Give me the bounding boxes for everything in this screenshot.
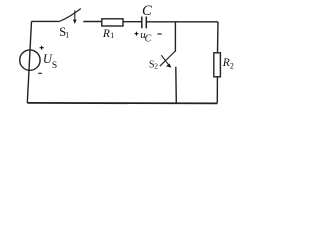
svg-text:R: R — [102, 28, 110, 40]
svg-text:1: 1 — [110, 31, 114, 40]
svg-text:2: 2 — [230, 62, 234, 71]
svg-text:R: R — [222, 57, 230, 69]
svg-text:C: C — [145, 33, 152, 44]
svg-text:2: 2 — [154, 62, 158, 71]
svg-text:1: 1 — [65, 30, 69, 39]
svg-text:S: S — [52, 61, 57, 71]
svg-text:C: C — [142, 3, 152, 19]
